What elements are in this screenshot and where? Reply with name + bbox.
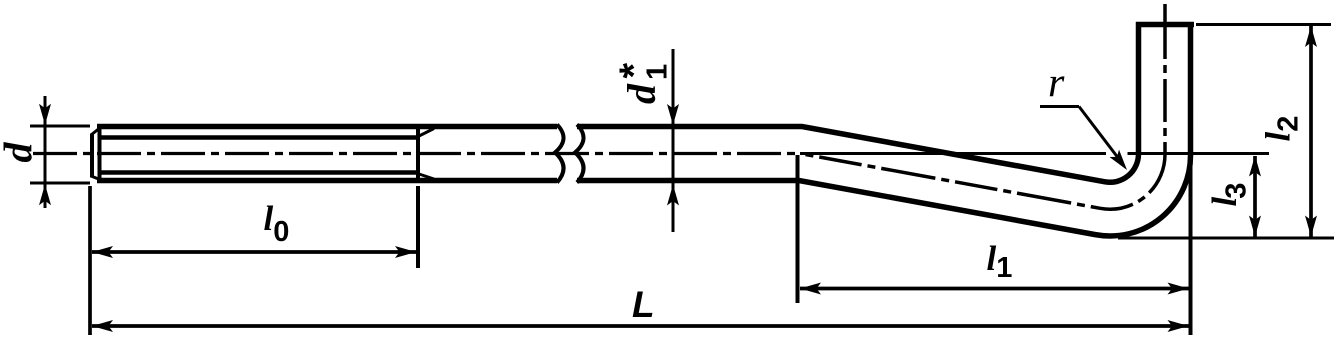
dimension l0: dimension line <box>92 250 416 254</box>
thread root line bottom <box>100 170 419 174</box>
dimension l2: dimension line <box>1309 26 1313 237</box>
right extension line (rod edge extended, shared l1 and L) <box>1189 154 1193 335</box>
l3 top extension line continued after leader crossing <box>1128 152 1270 155</box>
thread runout diagonal bottom <box>419 174 434 179</box>
rod top edge after break, sloped section and inner bend radius, up to vertical leg <box>577 22 1139 182</box>
leader r: shelf <box>1040 105 1079 108</box>
dimension d: bottom extension line <box>30 182 90 185</box>
dimension l0: right extension line <box>416 186 420 268</box>
leader r: diagonal with arrow <box>1079 107 1122 164</box>
rod bottom edge (threaded+plain, up to break) <box>97 178 557 184</box>
break line right <box>575 125 584 183</box>
dimension d: vertical dimension line with outside arrows <box>44 96 47 208</box>
chamfer top diagonal <box>91 127 101 135</box>
chamfer bottom diagonal <box>91 176 101 180</box>
rod left end face <box>90 134 94 178</box>
rod bottom edge after break, sloped section and outer bend radius, up to vertical leg <box>577 22 1191 236</box>
top extension line (top of leg, for l2) <box>1196 23 1331 26</box>
bottom extension line (bottom of bend, for l2/l3) <box>1118 237 1334 240</box>
dimension l1: dimension line <box>800 287 1189 291</box>
thread runout diagonal top <box>419 129 434 137</box>
svg-text:d: d <box>0 142 41 163</box>
svg-text:r: r <box>1048 61 1065 107</box>
shared left extension line (l0 and L) <box>88 186 92 335</box>
thread end line <box>416 124 420 183</box>
top cap of vertical leg <box>1136 22 1194 28</box>
centerline: horizontal axis of shank <box>33 152 800 155</box>
break line left <box>555 125 564 183</box>
rod top edge (threaded+plain, up to break) <box>97 124 557 130</box>
dimension d1*: vertical dimension line with outside arrows <box>672 49 675 232</box>
dimension d: top extension line <box>30 125 90 128</box>
chamfer edge line at left end <box>98 126 102 182</box>
dimension L: dimension line <box>92 324 1189 328</box>
dimension l1: left extension line <box>796 155 800 303</box>
dimension l3: dimension line <box>1253 156 1257 237</box>
svg-text:L: L <box>632 284 655 325</box>
centerline: axis of bent leg (from top down) <box>800 4 1165 209</box>
l3 top extension line (bend reference) <box>800 152 1106 155</box>
thread root line top <box>100 135 419 139</box>
